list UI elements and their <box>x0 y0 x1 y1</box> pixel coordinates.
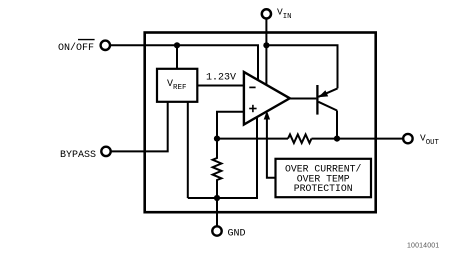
op-amp U1 <box>244 72 290 125</box>
svg-text:BYPASS: BYPASS <box>60 150 96 161</box>
reference VREF box <box>157 69 197 102</box>
svg-text:ON/OFF: ON/OFF <box>58 42 94 54</box>
protection block box <box>276 159 372 197</box>
pin terminal ON/OFF <box>101 41 110 50</box>
pin terminal VOUT <box>403 134 412 143</box>
wire op-amp ground drop <box>256 112 258 198</box>
svg-text:PROTECTION: PROTECTION <box>294 183 353 194</box>
junction on ON/OFF line above VREF <box>174 42 180 48</box>
wire output line left segment <box>217 138 288 140</box>
label OVER CURRENT / OVER TEMP PROTECTION <box>285 164 362 194</box>
junction VIN <box>263 42 269 48</box>
resistor R2 bottom of divider <box>213 139 222 198</box>
transistor Q1 pass PNP <box>290 85 338 139</box>
IC outline box <box>145 33 376 213</box>
ground rail <box>188 197 258 199</box>
wire feedback to op-amp plus input <box>217 112 245 139</box>
wire BYPASS to VREF <box>111 100 168 151</box>
wire output line right segment to VOUT <box>312 138 404 140</box>
wire GND pin drop <box>216 198 218 227</box>
junction ground rail at GND pin <box>214 195 220 201</box>
svg-text:1.23V: 1.23V <box>206 73 236 84</box>
junction feedback divider tap <box>214 136 220 142</box>
wire VIN to transistor emitter <box>266 45 337 88</box>
wire VIN vertical into op-amp top <box>265 18 267 92</box>
svg-text:GND: GND <box>228 228 246 239</box>
wire VREF output to op-amp minus input <box>197 85 245 87</box>
pin terminal GND <box>212 226 221 235</box>
label op-amp plus input <box>249 105 256 112</box>
wire VREF top drop <box>176 45 178 70</box>
label op-amp minus input <box>249 86 255 88</box>
junction collector to output <box>334 136 340 142</box>
resistor R1 top of divider <box>288 134 312 143</box>
wire VREF ground drop <box>187 100 189 198</box>
svg-text:10014001: 10014001 <box>407 243 439 250</box>
wire protection block to op-amp with arrow <box>267 114 276 178</box>
pin terminal VIN <box>262 9 271 18</box>
wire ON/OFF pin to op-amp enable <box>110 45 258 88</box>
pin terminal BYPASS <box>101 147 110 156</box>
